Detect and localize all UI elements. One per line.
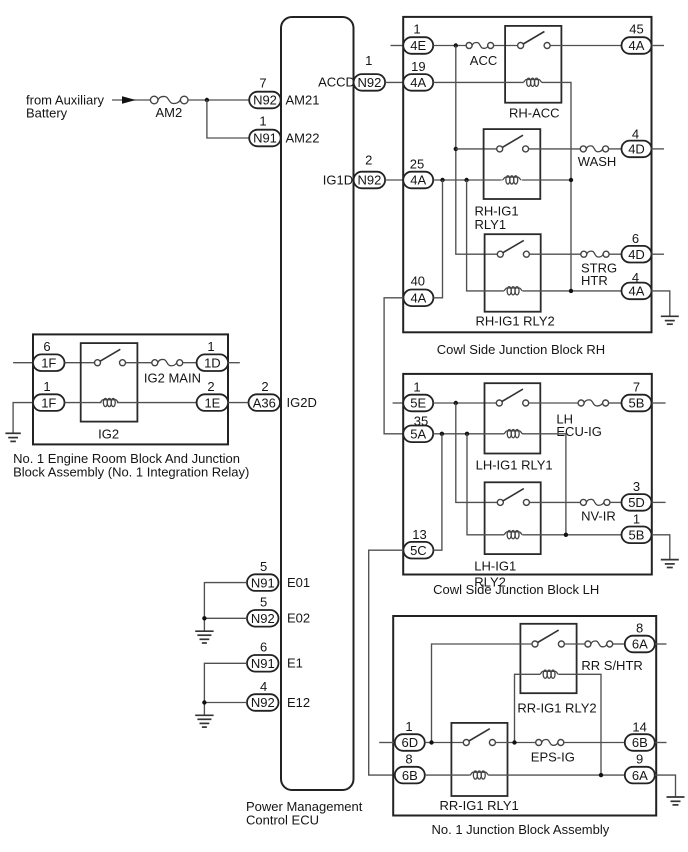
wire 4A40 feed vertical [433, 180, 442, 298]
connector N92 pin 7 AM21 [249, 76, 319, 109]
svg-text:7: 7 [259, 76, 266, 91]
connector 4A pin 19 [403, 59, 433, 91]
relay RR-IG1 RLY1 [440, 723, 519, 813]
svg-text:1: 1 [43, 379, 50, 394]
relay LH-IG1 RLY1 [476, 383, 553, 472]
svg-text:1: 1 [207, 339, 214, 354]
relay RR-IG1 RLY2 [517, 624, 596, 716]
wire 6D to RR RLY1 switch [425, 742, 464, 744]
fuse WASH [578, 146, 617, 169]
connector N91 pin 6 E1 [247, 640, 303, 672]
svg-text:E02: E02 [287, 611, 310, 626]
svg-text:E1: E1 [287, 656, 303, 671]
node junction 40 feed [440, 178, 444, 182]
fuse NV-IR [580, 499, 615, 523]
svg-text:AM21: AM21 [286, 93, 320, 108]
svg-text:5B: 5B [629, 528, 645, 543]
wire 4E to fuse ACC [433, 45, 466, 47]
wire coil to 1E [117, 402, 197, 404]
svg-text:N91: N91 [251, 656, 275, 671]
wire 1F6 to relay IG2 [65, 362, 95, 364]
wire 5B1 to ground [652, 535, 670, 560]
svg-text:2: 2 [207, 379, 214, 394]
wire RLY1 switch to fuse WASH [529, 148, 581, 150]
node junction battery [205, 98, 209, 102]
wire 4A25 to RLY1 coil [433, 179, 502, 181]
node junction LH RLY2 coil feed [465, 432, 469, 436]
connector 5D pin 3 [622, 479, 652, 511]
svg-text:25: 25 [410, 157, 424, 172]
svg-text:RR S/HTR: RR S/HTR [581, 658, 642, 673]
svg-text:4: 4 [260, 679, 267, 694]
wire stub left of 4E [391, 45, 404, 47]
svg-text:6B: 6B [402, 768, 418, 783]
connector 4D pin 6 [622, 231, 652, 263]
wire fuse to AM21 [188, 99, 250, 101]
wire 5E to LH RLY1 switch [433, 402, 496, 404]
svg-text:RR-IG1 RLY2: RR-IG1 RLY2 [517, 701, 596, 716]
wire ACC vertical to relay switches [456, 46, 498, 255]
connector 1D pin 1 [197, 339, 229, 371]
svg-text:1: 1 [365, 53, 372, 68]
wire stub right of 5D3 [652, 501, 666, 503]
svg-text:LH-IG1 RLY1: LH-IG1 RLY1 [476, 458, 553, 473]
connector N92 pin 1 ACCD [318, 53, 385, 91]
svg-text:6: 6 [632, 231, 639, 246]
svg-text:1: 1 [259, 114, 266, 129]
fuse AM2 [150, 96, 188, 120]
No. 1 Junction Block Assembly box [393, 616, 656, 816]
svg-text:40: 40 [411, 274, 425, 289]
svg-text:E12: E12 [287, 695, 310, 710]
ground E12 [195, 715, 213, 727]
wire stub right of 6B14 [655, 742, 667, 744]
svg-text:4A: 4A [629, 38, 645, 53]
svg-text:1E: 1E [204, 395, 220, 410]
svg-text:WASH: WASH [578, 154, 617, 169]
wire RLY2 coil out to 4A4 [523, 290, 622, 292]
svg-text:RH-ACC: RH-ACC [509, 106, 560, 121]
svg-text:IG2: IG2 [98, 427, 119, 442]
wire stub left of 5E [393, 402, 404, 404]
fuse LH ECU-IG [556, 400, 608, 439]
connector 4A pin 4 [622, 270, 652, 299]
wire 1F1 to coil [65, 402, 102, 404]
connector 6B pin 8 [395, 752, 425, 784]
connector 5B pin 1 [622, 512, 652, 544]
node junction 6A9 row [599, 773, 603, 777]
wire relay to 4A45 [550, 45, 621, 47]
ground LH block [661, 560, 679, 568]
svg-text:5B: 5B [629, 396, 645, 411]
wire stub left of 6D [379, 742, 395, 744]
wire 1E to A36 [228, 402, 248, 404]
node junction 5C riser [440, 432, 444, 436]
svg-text:RR-IG1 RLY1: RR-IG1 RLY1 [440, 798, 519, 813]
wire 6A9 to ground [655, 775, 676, 797]
wire switch to fuse IG2 MAIN [126, 362, 152, 364]
svg-text:HTR: HTR [581, 273, 608, 288]
wire RLY1 coil out [522, 179, 571, 181]
svg-text:5D: 5D [628, 495, 645, 510]
wire 5C to 6B8 [369, 550, 404, 775]
wire LH RLY1 coil out down [523, 434, 566, 535]
fuse IG2 MAIN [144, 359, 201, 385]
svg-text:EPS-IG: EPS-IG [531, 750, 575, 765]
svg-text:AM2: AM2 [156, 105, 183, 120]
Cowl Side Junction Block RH box [403, 17, 651, 332]
wire fuse NV-IR to 5D3 [610, 501, 622, 503]
wire RR RLY1 switch to fuse EPS-IG [495, 742, 535, 744]
No. 1 Engine Room Block box [33, 334, 228, 444]
fuse RR S/HTR [581, 641, 642, 673]
svg-text:8: 8 [636, 621, 643, 636]
svg-text:2: 2 [365, 152, 372, 167]
svg-text:Block Assembly (No. 1 Integrat: Block Assembly (No. 1 Integration Relay) [13, 465, 249, 480]
svg-text:ACCD: ACCD [318, 74, 355, 89]
connector N92 pin 2 IG1D [323, 152, 385, 188]
wire fuse ACC to relay [494, 45, 518, 47]
node junction E12 ground [202, 700, 206, 704]
wire stub left of 1F6 [13, 362, 33, 364]
wire LH RLY2 coil out to 5B1 [523, 534, 622, 536]
connector 5A pin 35 [403, 414, 433, 443]
connector N92 pin 4 E12 [247, 679, 310, 711]
svg-text:4E: 4E [410, 38, 426, 53]
ground E02 [195, 631, 213, 643]
svg-text:Cowl Side Junction Block RH: Cowl Side Junction Block RH [437, 342, 605, 357]
node junction coil bus 2 [569, 289, 573, 293]
wire stub right of 4D4 [652, 148, 665, 150]
wire stub right of 5B7 [652, 402, 666, 404]
wire ground to 1F1 [13, 403, 33, 434]
svg-text:RH-IG1 RLY2: RH-IG1 RLY2 [476, 314, 555, 329]
connector 5C pin 13 [403, 527, 433, 559]
fuse STRG HTR [581, 251, 617, 288]
svg-text:1: 1 [633, 512, 640, 527]
node junction E02 ground [202, 616, 206, 620]
wire stub right of 4A45 [652, 45, 665, 47]
wire E1 E12 to ground [204, 663, 247, 715]
svg-text:7: 7 [633, 380, 640, 395]
svg-text:RLY2: RLY2 [474, 574, 506, 589]
wire RR RLY2 switch to fuse [564, 643, 585, 645]
wire 4A4 to ground [652, 291, 670, 316]
wire ACCD to 4A19 [385, 81, 403, 83]
svg-text:4D: 4D [628, 247, 645, 262]
wire IG1D to 4A25 [385, 179, 403, 181]
svg-text:5C: 5C [410, 543, 427, 558]
svg-text:No. 1 Junction Block Assembly: No. 1 Junction Block Assembly [432, 822, 610, 837]
relay IG2 [81, 343, 138, 441]
svg-text:5E: 5E [410, 396, 426, 411]
svg-text:ACC: ACC [470, 53, 497, 68]
ECU block Power Management Control ECU [281, 17, 354, 790]
svg-text:N92: N92 [357, 173, 381, 188]
wire RR RLY1 coil out to 6A9 [489, 774, 625, 776]
connector 1E pin 2 [197, 379, 229, 411]
connector A36 pin 2 IG2D [249, 379, 317, 411]
ground No.1 Junction Block [667, 797, 685, 805]
wire LH RLY1 switch to fuse [529, 402, 578, 404]
connector 4D pin 4 [622, 127, 652, 158]
svg-text:6B: 6B [632, 735, 648, 750]
svg-text:13: 13 [412, 527, 426, 542]
svg-text:ECU-IG: ECU-IG [556, 424, 602, 439]
svg-text:1F: 1F [41, 395, 56, 410]
wire 5E vertical to LH RLY2 switch [456, 403, 498, 502]
svg-text:N92: N92 [251, 695, 275, 710]
svg-text:IG2D: IG2D [287, 395, 317, 410]
svg-text:Battery: Battery [26, 106, 68, 121]
connector N91 pin 1 AM22 [249, 114, 319, 147]
connector 1F pin 1 [33, 379, 65, 411]
connector 5B pin 7 [622, 380, 652, 412]
svg-text:4A: 4A [410, 291, 426, 306]
wire RLY2 coil feed vertical [467, 180, 504, 291]
svg-text:Cowl Side Junction Block LH: Cowl Side Junction Block LH [433, 582, 599, 597]
svg-text:N91: N91 [251, 575, 275, 590]
fuse EPS-IG [531, 739, 575, 764]
svg-text:E01: E01 [287, 575, 310, 590]
ground RH block [661, 316, 679, 324]
arrow battery feed [122, 96, 136, 103]
svg-text:Control ECU: Control ECU [246, 813, 319, 828]
node junction RLY2 coil drop [512, 740, 516, 744]
svg-text:N91: N91 [253, 131, 277, 146]
svg-text:N92: N92 [251, 611, 275, 626]
svg-text:1: 1 [413, 380, 420, 395]
wire fuse to 5B7 [609, 402, 622, 404]
svg-text:2: 2 [261, 379, 268, 394]
svg-text:IG2 MAIN: IG2 MAIN [144, 371, 201, 386]
wire 6D riser to RR RLY2 switch [432, 644, 533, 743]
wire 6B8 to RR RLY1 coil [425, 774, 470, 776]
node junction coil bus [569, 178, 573, 182]
wire 5C riser to 5A row [433, 434, 442, 550]
node junction ACC row [454, 43, 458, 47]
wire fuse to 6A8 [613, 643, 625, 645]
svg-text:6: 6 [43, 339, 50, 354]
connector 6A pin 8 [625, 621, 655, 653]
svg-text:5: 5 [260, 559, 267, 574]
relay LH-IG1 RLY2 [474, 482, 540, 589]
connector 4A pin 25 [403, 157, 433, 189]
wire 4A40 to 5A35 [384, 298, 403, 434]
ground 1F [5, 433, 20, 441]
svg-text:4D: 4D [628, 142, 645, 157]
wire battery feed [112, 99, 150, 101]
wire fuse EPS-IG to 6B14 [564, 742, 625, 744]
wire LH RLY2 switch to fuse NV-IR [529, 501, 580, 503]
svg-text:NV-IR: NV-IR [581, 509, 616, 524]
svg-text:AM22: AM22 [286, 131, 320, 146]
svg-text:19: 19 [411, 59, 425, 74]
svg-text:4A: 4A [629, 284, 645, 299]
svg-text:LH-IG1: LH-IG1 [474, 559, 516, 574]
svg-text:IG1D: IG1D [323, 172, 353, 187]
wire fuse to 1D [183, 362, 197, 364]
connector 5E pin 1 [403, 380, 433, 412]
connector 6A pin 9 [625, 752, 655, 784]
wire RLY2 switch to fuse STRG [529, 253, 580, 255]
relay RH-IG1 RLY1 [475, 129, 541, 232]
relay RH-IG1 RLY2 [476, 234, 555, 328]
wire 4A19 to RH-ACC coil [433, 81, 523, 83]
svg-text:4A: 4A [410, 173, 426, 188]
svg-text:1: 1 [413, 22, 420, 37]
svg-text:6A: 6A [632, 637, 648, 652]
node junction RLY2 coil feed [464, 178, 468, 182]
svg-text:3: 3 [633, 479, 640, 494]
svg-text:RLY1: RLY1 [475, 217, 507, 232]
svg-text:9: 9 [636, 752, 643, 767]
svg-text:6A: 6A [632, 768, 648, 783]
svg-text:1: 1 [405, 719, 412, 734]
connector 6B pin 14 [625, 720, 655, 751]
connector 1F pin 6 [33, 339, 65, 371]
svg-text:4: 4 [632, 127, 639, 142]
wire stub right of 6A8 [655, 643, 667, 645]
node junction 5E row [454, 401, 458, 405]
wire fuse WASH to 4D4 [609, 148, 622, 150]
wire branch to AM22 [207, 100, 250, 138]
connector 4A pin 45 [622, 22, 652, 54]
svg-text:N92: N92 [357, 75, 381, 90]
fuse ACC [466, 42, 497, 68]
connector N92 pin 5 E02 [247, 595, 310, 627]
svg-text:1D: 1D [204, 355, 221, 370]
wire E01 E02 to ground [204, 583, 247, 632]
svg-text:14: 14 [632, 720, 646, 735]
relay RH-ACC [505, 26, 561, 121]
wire RH-ACC coil out down [542, 82, 571, 291]
Cowl Side Junction Block LH box [403, 374, 652, 575]
wire RR RLY2 coil left down [515, 674, 540, 743]
wire 5A to LH RLY1 coil [433, 433, 504, 435]
node junction 6D [429, 740, 433, 744]
connector N91 pin 5 E01 [247, 559, 310, 591]
connector 4A pin 40 [403, 274, 433, 307]
svg-text:6: 6 [260, 640, 267, 655]
svg-text:1F: 1F [41, 355, 56, 370]
svg-text:6D: 6D [401, 735, 418, 750]
wire RR RLY2 coil right down [559, 674, 601, 775]
wire stub right of 1D [228, 362, 240, 364]
svg-text:5: 5 [260, 595, 267, 610]
wire stub right of 4D6 [652, 253, 665, 255]
node junction coil bus LH [564, 533, 568, 537]
svg-text:4A: 4A [410, 75, 426, 90]
wire to RLY1 switch [456, 148, 497, 150]
svg-text:N92: N92 [253, 93, 277, 108]
svg-text:A36: A36 [253, 395, 276, 410]
svg-text:8: 8 [405, 752, 412, 767]
connector 6D pin 1 [395, 719, 425, 751]
svg-text:5A: 5A [410, 427, 426, 442]
connector 4E pin 1 [403, 22, 433, 54]
svg-text:45: 45 [629, 22, 643, 37]
node junction RLY1 switch [454, 147, 458, 151]
wire LH RLY2 coil feed vertical [467, 434, 504, 535]
wire fuse STRG to 4D6 [609, 253, 621, 255]
